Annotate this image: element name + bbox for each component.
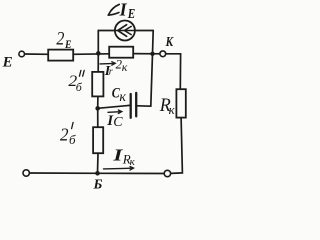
wire R_К bottom to base rail corner [171, 118, 183, 174]
label αI_Э : alpha glyph [109, 4, 120, 14]
wire C_К right plate to right vertical [137, 105, 151, 107]
resistor r_б' (box) [93, 127, 103, 153]
wire junction to C_К left plate [98, 105, 130, 108]
top rail left segment [98, 30, 115, 32]
svg-text:2: 2 [56, 29, 64, 50]
right vertical of top loop down through junction to C_K corner [151, 31, 153, 107]
svg-text:к: к [122, 60, 128, 74]
svg-text:Б: Б [93, 178, 103, 190]
capacitor C_К left plate [130, 94, 132, 118]
wire К terminal to R_К top [166, 54, 181, 89]
current source small chevron [124, 26, 131, 34]
resistor R_К (box) [176, 89, 185, 117]
svg-text:к: к [119, 90, 126, 105]
svg-text:r: r [109, 67, 113, 78]
wire junction to r_б' [97, 108, 99, 127]
wire r_Э to node (junction under current source) [73, 53, 109, 56]
wire r_К to terminal К [133, 53, 160, 55]
svg-text:I: I [119, 0, 128, 19]
wire emitter terminal to r_Э [25, 53, 49, 55]
top rail right segment [135, 30, 153, 32]
svg-text:E: E [64, 37, 71, 51]
current I_Rк arrow [104, 167, 133, 170]
current source arrow line [115, 30, 135, 32]
svg-text:к: к [130, 156, 136, 168]
terminal (open circle, bottom left) [23, 170, 29, 176]
svg-text:C: C [113, 115, 123, 130]
terminal (open circle, bottom right) [164, 170, 170, 176]
svg-text:б: б [76, 80, 83, 94]
junction node (top of r_b'' branch) [96, 51, 101, 56]
svg-text:E: E [2, 55, 13, 71]
wire r_б' to base rail [97, 153, 100, 173]
svg-text:2: 2 [60, 124, 69, 144]
junction node (C_К branch) [95, 106, 100, 111]
wire junction up to top rail [97, 31, 99, 54]
resistor r_Э (box) [48, 50, 73, 61]
current I_r arrow [100, 62, 114, 65]
current source big chevron [118, 25, 127, 37]
current source αI_Э (circle) [115, 21, 135, 41]
terminal Э (open circle) [19, 51, 25, 57]
capacitor C_К right plate [135, 93, 137, 116]
svg-text:к: к [169, 102, 176, 117]
terminal К (open circle) [160, 51, 166, 57]
junction at collector rail [150, 52, 154, 56]
svg-text:E: E [127, 7, 135, 22]
wire vertical: junction to r_б'' [97, 53, 99, 72]
junction node (base rail) [95, 171, 100, 176]
base rail wire [30, 172, 165, 175]
current I_C arrow [108, 111, 121, 114]
svg-text:К: К [165, 35, 174, 50]
wire r_б'' to junction of C_К branch [97, 96, 99, 108]
resistor r_К (box) [109, 47, 133, 58]
resistor r_б'' (box) [92, 72, 103, 97]
svg-text:б: б [69, 132, 76, 147]
